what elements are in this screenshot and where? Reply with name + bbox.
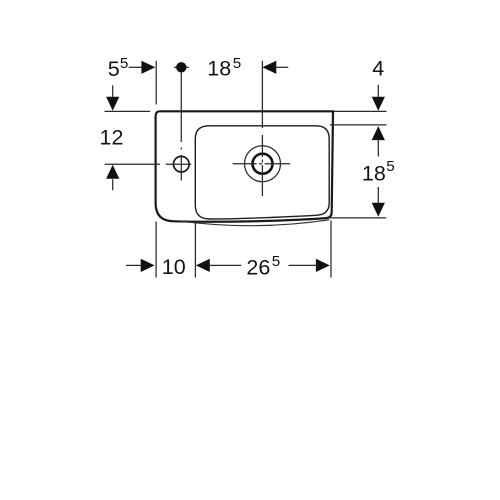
tap hole horizontal crosshair [166, 163, 192, 165]
26-5 dimension tail right [289, 264, 317, 266]
4-dim shaft above arrow [377, 85, 379, 97]
svg-text:5: 5 [120, 55, 128, 72]
inner basin top right extension line [330, 124, 387, 126]
tap hole circle [174, 156, 190, 172]
26-5 dimension tail left [210, 264, 242, 266]
tap hole centerline (dash-dot) [180, 72, 182, 181]
12-dim shaft lower [112, 179, 114, 190]
tap hole center extension line [105, 163, 161, 165]
left 12-dim extension line at top edge [105, 110, 151, 112]
svg-text:26: 26 [246, 255, 270, 279]
svg-text:18: 18 [362, 161, 386, 185]
arrow left (26-5 dim) [196, 259, 210, 272]
18-5 right shaft lower [377, 187, 379, 203]
bottom edge right extension line [330, 217, 387, 219]
18-5 top dimension tail [276, 66, 288, 68]
drain horizontal crosshair (dash-dot) [233, 163, 291, 165]
12-dim shaft upper [112, 85, 114, 97]
extension line inner basin right bottom [330, 221, 332, 278]
drain outer thin circle [245, 146, 281, 182]
arrow right (10 dim) [141, 259, 155, 272]
inner basin bowl outline [195, 126, 329, 219]
svg-text:18: 18 [207, 57, 231, 81]
tap hole reference dot stub [174, 66, 189, 68]
svg-text:5: 5 [108, 57, 120, 81]
svg-text:10: 10 [162, 255, 186, 279]
arrow right (26-5 dim) [316, 259, 330, 272]
extension line outer left bottom [155, 222, 157, 278]
svg-text:5: 5 [386, 158, 394, 175]
svg-text:5: 5 [272, 253, 280, 270]
top dimension line 5-5 segment [129, 66, 142, 68]
drain inner thick circle [253, 154, 273, 174]
svg-text:4: 4 [372, 57, 384, 81]
extension line inner basin left bottom [194, 222, 196, 278]
arrow down (18-5 right bottom) [372, 203, 385, 217]
arrow up (12 dim) [106, 165, 119, 179]
bottom dimension tail left [126, 264, 141, 266]
18-5 right shaft upper [377, 140, 379, 157]
arrow up (18-5 right) [372, 126, 385, 140]
drain centerline (dash-dot) [261, 61, 263, 196]
washbasin outer body outline [156, 111, 333, 221]
arrow down (12 dim) [106, 97, 119, 111]
arrow left (18-5 top) [262, 61, 276, 74]
tap hole reference dot [176, 62, 186, 72]
arrow down (4 dim) [372, 97, 385, 111]
arrow right (5-5) [141, 61, 155, 74]
outer body front silhouette crescent [181, 220, 330, 226]
extension line left edge (x=156) top [155, 61, 157, 105]
svg-text:12: 12 [100, 126, 124, 150]
top edge right extension line [333, 110, 386, 112]
svg-text:5: 5 [233, 55, 241, 72]
